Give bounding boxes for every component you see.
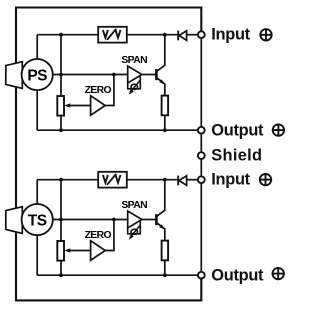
- svg-text:Output: Output: [211, 122, 264, 140]
- svg-text:Output: Output: [211, 267, 264, 285]
- svg-text:Input: Input: [211, 171, 250, 189]
- svg-text:Shield: Shield: [211, 147, 262, 165]
- svg-text:TS: TS: [28, 212, 47, 229]
- svg-text:Input: Input: [211, 26, 250, 44]
- svg-text:PS: PS: [27, 67, 47, 84]
